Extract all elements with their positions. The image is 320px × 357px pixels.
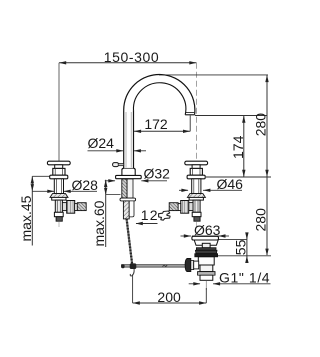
left handle escutcheon disk — [52, 197, 66, 200]
spout outlet end — [185, 114, 194, 116]
svg-text:200: 200 — [157, 289, 181, 305]
dimension 174 line — [243, 116, 245, 178]
svg-text:280: 280 — [253, 113, 269, 137]
label 12 leader arrow — [136, 223, 158, 225]
left handle bottom cup — [54, 212, 63, 216]
right handle escutcheon disk — [189, 197, 203, 200]
left handle centerline — [58, 63, 60, 161]
drain upper pipe — [200, 265, 213, 272]
drain side stub — [194, 261, 199, 269]
svg-text:Ø46: Ø46 — [217, 176, 244, 192]
right handle body — [193, 200, 200, 212]
right handle escutcheon — [187, 194, 205, 198]
drain coupling ring — [198, 272, 215, 276]
drain seal band 2 — [195, 250, 217, 253]
left handle flange — [50, 175, 68, 179]
wrench icon — [159, 211, 171, 220]
drain body — [198, 257, 214, 265]
spout column base flare — [122, 168, 135, 175]
svg-text:Ø63: Ø63 — [194, 222, 221, 238]
left handle hub — [55, 165, 63, 169]
extension line drain level — [215, 255, 272, 257]
drain lower pipe — [200, 275, 213, 280]
right handle foot — [194, 217, 200, 222]
horizontal linkage rod — [122, 265, 186, 267]
spout column right wall — [133, 110, 135, 168]
right handle outlet thread — [169, 203, 178, 211]
drain side collar — [191, 261, 194, 270]
pop-up vertical rod — [127, 219, 133, 265]
left handle outlet thread — [77, 203, 86, 211]
right handle flange — [187, 175, 205, 179]
spout column inner lines — [125, 112, 127, 168]
extension line handle flange level — [206, 176, 271, 178]
left handle bar — [47, 161, 70, 165]
dimension max.60 — [105, 180, 107, 247]
svg-text:12: 12 — [141, 207, 159, 223]
spout outer arc — [124, 74, 195, 114]
left handle foot — [56, 217, 62, 222]
right handle bottom cup — [192, 212, 201, 216]
pop-up rod hook — [130, 266, 134, 276]
right handle outlet neck — [189, 203, 193, 211]
spout shank dark core — [122, 179, 127, 198]
drain locknut — [195, 254, 218, 257]
right handle lower centerline — [195, 222, 197, 227]
svg-text:150-300: 150-300 — [104, 49, 160, 65]
dimension 150-300 line — [59, 62, 197, 64]
right handle dashed centerline — [196, 63, 198, 161]
drain dome — [194, 240, 218, 245]
left handle outlet stub — [75, 204, 78, 211]
drain dome knob — [202, 243, 210, 248]
right handle hub — [192, 165, 200, 169]
dimension 55 line — [246, 233, 248, 264]
svg-text:280: 280 — [253, 208, 269, 232]
svg-text:Ø32: Ø32 — [144, 166, 171, 182]
svg-text:Ø24: Ø24 — [88, 135, 115, 151]
svg-text:174: 174 — [230, 135, 246, 159]
spout inner arc — [133, 83, 185, 115]
dimension 200 — [133, 302, 207, 304]
left handle bonnet — [53, 168, 65, 175]
dimension 280 arrows — [265, 75, 268, 82]
right handle bar — [185, 161, 208, 165]
left handle outlet neck — [62, 203, 66, 211]
spout shank thread — [123, 201, 129, 219]
svg-text:G1" 1/4: G1" 1/4 — [219, 269, 270, 285]
spout shank hex collar — [120, 198, 136, 201]
rod adjuster squiggle — [163, 265, 168, 267]
spout column left wall — [123, 110, 125, 168]
right handle neck — [192, 179, 201, 194]
drain side hex nut — [185, 259, 191, 272]
rod end cap — [121, 264, 124, 268]
extension line spout top — [159, 74, 268, 76]
drain seal band 1 — [196, 248, 216, 251]
left handle escutcheon — [50, 194, 68, 198]
right handle outlet hex nut — [181, 201, 189, 214]
left handle body — [55, 200, 62, 212]
svg-text:55: 55 — [232, 239, 248, 255]
dimension max.45 — [31, 176, 33, 245]
svg-text:max.60: max.60 — [91, 200, 107, 246]
drain flange plate — [192, 236, 219, 240]
dimension 280 vertical line — [266, 75, 268, 255]
rod clevis — [130, 263, 137, 269]
svg-text:172: 172 — [144, 116, 168, 132]
left handle outlet hex nut — [67, 201, 75, 214]
right handle bonnet — [190, 168, 202, 175]
drain pipe centerline — [205, 281, 207, 290]
dimension 172 extension — [189, 116, 191, 132]
spout base flange — [116, 175, 142, 178]
right handle outlet stub — [178, 204, 181, 211]
svg-text:Ø28: Ø28 — [72, 177, 99, 193]
left handle neck — [54, 179, 63, 194]
svg-text:max.45: max.45 — [18, 195, 34, 241]
pop-up rod knob on spout — [113, 163, 119, 167]
left handle lower centerline — [58, 222, 60, 227]
dimension 172 line — [134, 130, 190, 132]
extension line spout outlet level — [195, 115, 268, 117]
dimension 150-300 arrows — [59, 61, 66, 64]
